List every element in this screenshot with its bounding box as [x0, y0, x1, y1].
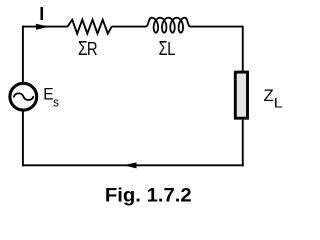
wire: between resistor and inductor	[112, 26, 146, 28]
svg-text:Fig. 1.7.2: Fig. 1.7.2	[105, 185, 192, 206]
wire: load bottom to bottom-right corner	[242, 120, 244, 167]
wire: top side from top-left corner to resistor	[22, 26, 68, 28]
load impedance ZL rectangle	[235, 72, 247, 118]
current arrow on top wire	[36, 24, 49, 30]
svg-text:s: s	[53, 96, 59, 110]
svg-text:L: L	[167, 39, 175, 59]
resistor sigma-R zigzag	[68, 20, 112, 34]
wire: source bottom to bottom-left corner	[22, 111, 24, 166]
svg-text:R: R	[87, 39, 98, 59]
svg-text:Z: Z	[264, 87, 274, 105]
AC source sine wave	[14, 93, 34, 100]
wire: left vertical from top-left corner down to source top	[22, 26, 24, 83]
return-current arrow on bottom wire	[123, 162, 136, 168]
svg-text:L: L	[274, 95, 283, 111]
wire: inductor to top-right corner, down to load top	[190, 27, 243, 71]
svg-text:Σ: Σ	[159, 38, 168, 60]
inductor sigma-L coil	[146, 18, 191, 33]
svg-text:I: I	[39, 4, 44, 24]
AC source Es circle	[10, 83, 37, 110]
wire: bottom side (return path)	[22, 164, 244, 166]
